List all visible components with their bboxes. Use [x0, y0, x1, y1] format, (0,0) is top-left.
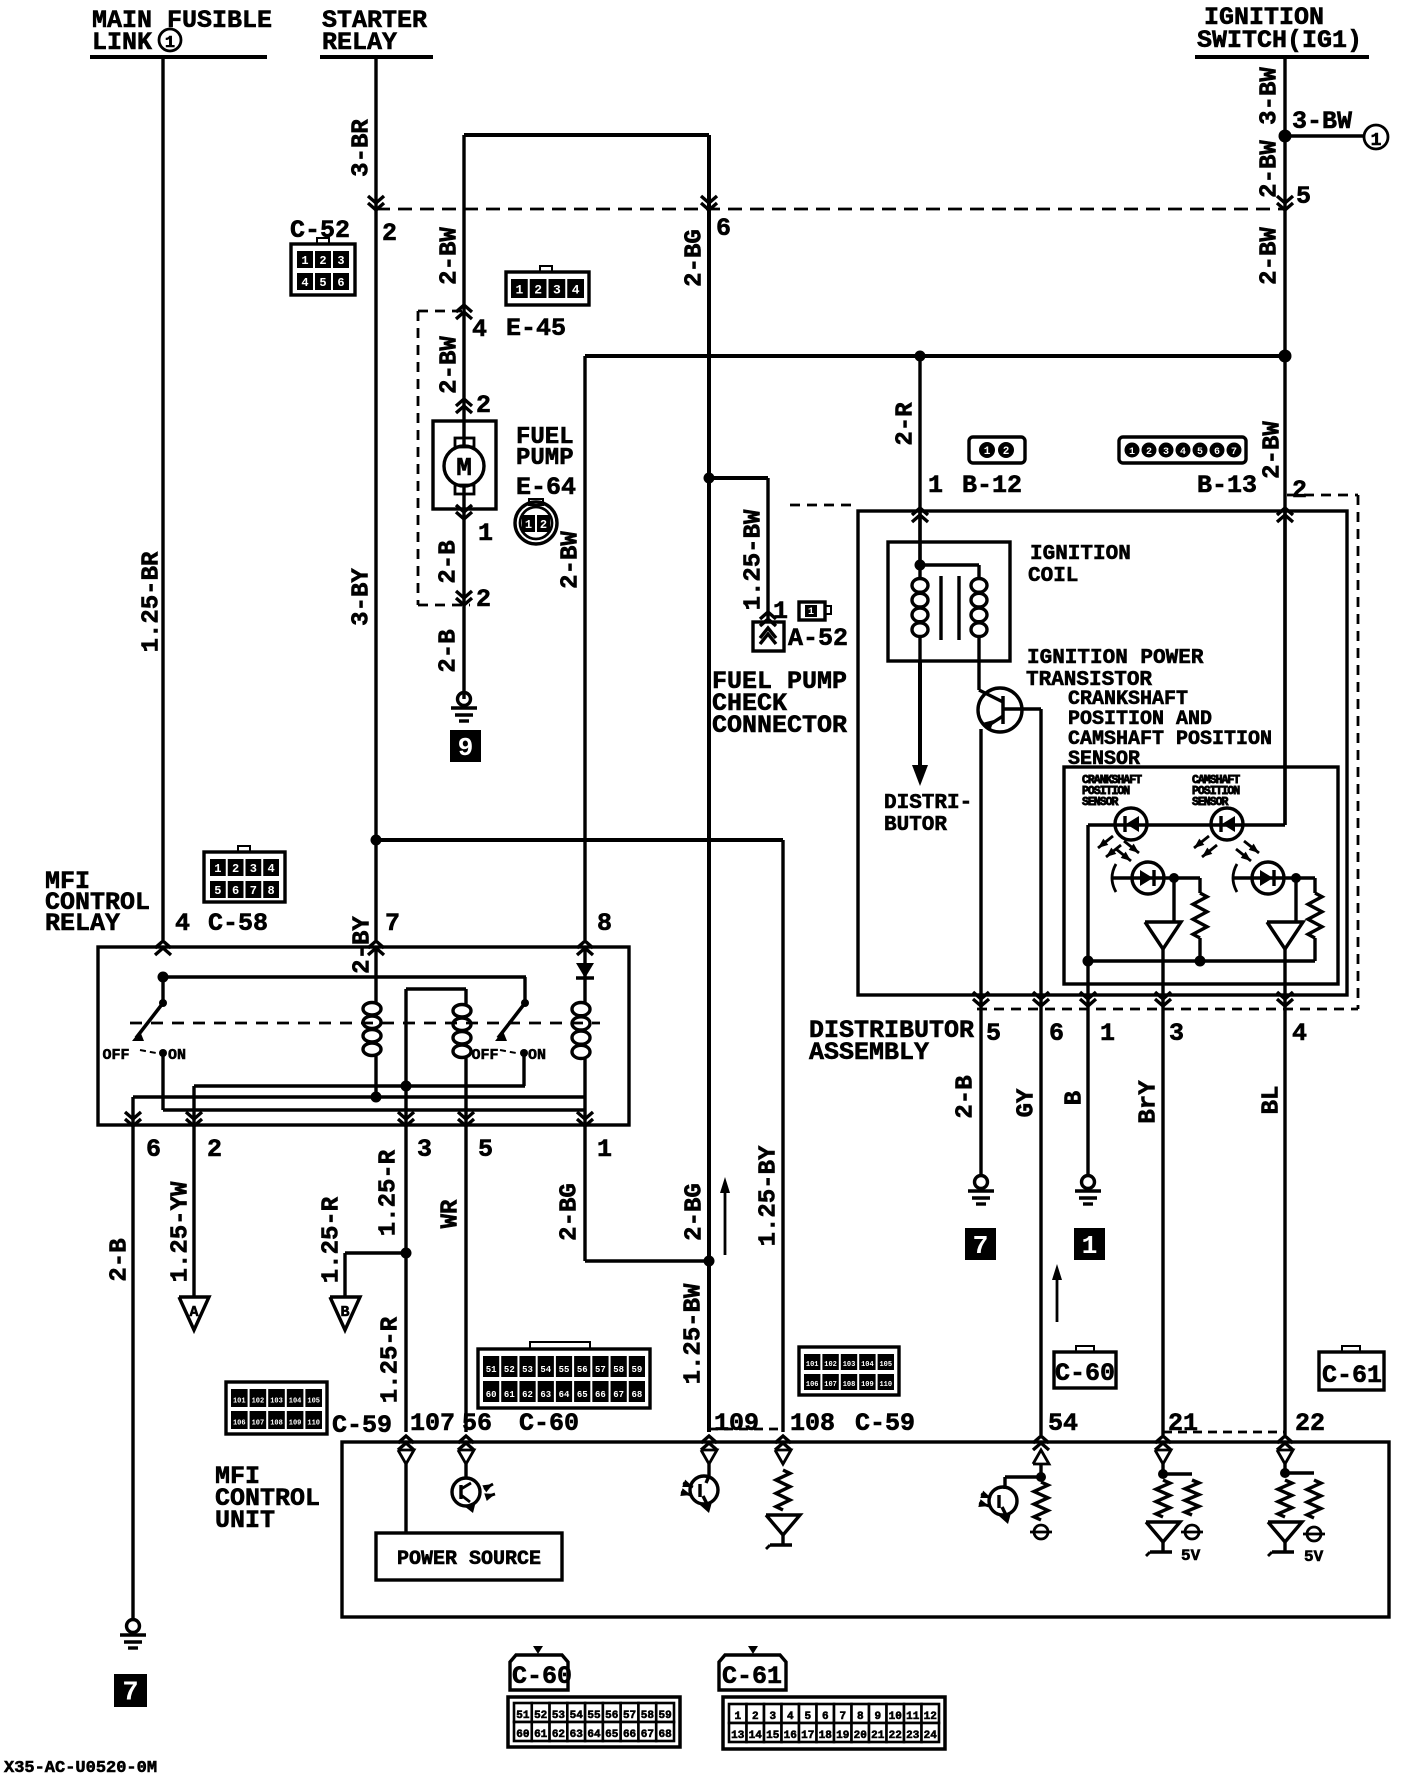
svg-text:1: 1	[165, 34, 175, 53]
svg-text:52: 52	[504, 1365, 515, 1375]
svg-text:M: M	[456, 453, 472, 483]
svg-text:67: 67	[613, 1390, 624, 1400]
svg-text:63: 63	[540, 1390, 551, 1400]
svg-text:C-59: C-59	[855, 1409, 915, 1438]
svg-text:62: 62	[552, 1729, 565, 1741]
svg-text:22: 22	[889, 1730, 902, 1742]
svg-text:A: A	[189, 1304, 198, 1321]
svg-text:16: 16	[784, 1730, 797, 1742]
svg-text:2: 2	[382, 219, 397, 248]
svg-text:1.25-BW: 1.25-BW	[680, 1283, 707, 1384]
svg-text:E-45: E-45	[506, 314, 566, 343]
svg-text:7: 7	[385, 909, 400, 938]
svg-text:7: 7	[122, 1678, 138, 1709]
svg-text:58: 58	[613, 1365, 624, 1375]
svg-text:7: 7	[839, 1711, 846, 1723]
svg-text:56: 56	[462, 1409, 492, 1438]
svg-text:102: 102	[824, 1361, 837, 1369]
svg-text:11: 11	[906, 1711, 920, 1723]
svg-text:6: 6	[1049, 1019, 1064, 1048]
svg-text:C-60: C-60	[519, 1409, 579, 1438]
svg-text:57: 57	[595, 1365, 606, 1375]
svg-text:3: 3	[250, 862, 257, 876]
svg-text:106: 106	[806, 1381, 819, 1389]
svg-text:62: 62	[522, 1390, 533, 1400]
svg-text:2: 2	[752, 1711, 759, 1723]
svg-text:4: 4	[1180, 447, 1186, 458]
svg-text:B-12: B-12	[962, 471, 1022, 500]
svg-text:2-BG: 2-BG	[681, 1183, 708, 1241]
svg-text:UNIT: UNIT	[215, 1506, 275, 1535]
svg-text:9: 9	[874, 1711, 881, 1723]
svg-text:3-BR: 3-BR	[348, 119, 375, 177]
svg-text:56: 56	[577, 1365, 588, 1375]
svg-text:24: 24	[924, 1730, 938, 1742]
svg-text:2-B: 2-B	[952, 1075, 979, 1118]
svg-text:65: 65	[577, 1390, 588, 1400]
svg-text:107: 107	[824, 1381, 837, 1389]
svg-text:3-BW: 3-BW	[1292, 107, 1352, 136]
svg-text:101: 101	[233, 1398, 246, 1406]
svg-text:1: 1	[478, 519, 493, 548]
svg-text:104: 104	[861, 1361, 874, 1369]
svg-text:4: 4	[301, 276, 308, 290]
svg-text:53: 53	[552, 1710, 566, 1722]
svg-text:4: 4	[175, 909, 190, 938]
svg-text:68: 68	[631, 1390, 642, 1400]
svg-text:IGNITION: IGNITION	[1030, 543, 1131, 566]
svg-text:68: 68	[659, 1729, 673, 1741]
svg-text:3: 3	[769, 1711, 776, 1723]
svg-text:5: 5	[986, 1019, 1001, 1048]
svg-text:5: 5	[319, 276, 326, 290]
svg-text:65: 65	[605, 1729, 619, 1741]
svg-text:59: 59	[631, 1365, 642, 1375]
svg-text:2-BG: 2-BG	[681, 229, 708, 287]
svg-text:5: 5	[478, 1135, 493, 1164]
svg-text:23: 23	[906, 1730, 920, 1742]
svg-text:14: 14	[749, 1730, 763, 1742]
svg-text:61: 61	[534, 1729, 548, 1741]
svg-text:C-60: C-60	[512, 1662, 572, 1691]
svg-text:IGNITION POWER: IGNITION POWER	[1027, 647, 1204, 670]
svg-text:ON: ON	[528, 1047, 546, 1064]
svg-text:1: 1	[808, 607, 814, 618]
svg-text:109: 109	[861, 1381, 874, 1389]
svg-text:C-61: C-61	[722, 1662, 782, 1691]
svg-text:5: 5	[214, 884, 221, 898]
svg-text:1: 1	[1129, 447, 1135, 458]
svg-text:RELAY: RELAY	[45, 909, 120, 938]
svg-text:5: 5	[1296, 182, 1311, 211]
svg-text:1.25-R: 1.25-R	[377, 1316, 404, 1403]
svg-text:C-59: C-59	[332, 1411, 392, 1440]
svg-text:1: 1	[1100, 1019, 1115, 1048]
svg-text:2-BW: 2-BW	[557, 531, 584, 589]
svg-text:SWITCH(IG1): SWITCH(IG1)	[1197, 26, 1362, 55]
svg-text:RELAY: RELAY	[322, 28, 397, 57]
svg-text:C-52: C-52	[290, 216, 350, 245]
svg-text:1: 1	[515, 282, 523, 297]
svg-text:105: 105	[307, 1398, 320, 1406]
svg-text:60: 60	[486, 1390, 497, 1400]
svg-text:8: 8	[857, 1711, 864, 1723]
svg-text:C-60: C-60	[1055, 1359, 1115, 1388]
svg-text:6: 6	[146, 1135, 161, 1164]
svg-text:61: 61	[504, 1390, 515, 1400]
svg-text:66: 66	[623, 1729, 636, 1741]
svg-text:2: 2	[207, 1135, 222, 1164]
svg-text:12: 12	[924, 1711, 937, 1723]
svg-text:B: B	[340, 1304, 349, 1321]
svg-text:109: 109	[714, 1409, 759, 1438]
svg-text:PUMP: PUMP	[516, 445, 574, 472]
svg-text:A-52: A-52	[788, 624, 848, 653]
svg-text:108: 108	[270, 1420, 283, 1428]
svg-text:3: 3	[1163, 447, 1169, 458]
svg-text:E-64: E-64	[516, 473, 576, 502]
svg-text:109: 109	[289, 1420, 302, 1428]
svg-text:2: 2	[1003, 446, 1010, 458]
svg-text:66: 66	[595, 1390, 606, 1400]
svg-text:1: 1	[525, 518, 532, 532]
svg-text:BL: BL	[1258, 1086, 1285, 1115]
svg-text:1.25-BW: 1.25-BW	[740, 509, 767, 610]
svg-text:54: 54	[570, 1710, 584, 1722]
svg-text:58: 58	[641, 1710, 655, 1722]
svg-text:52: 52	[534, 1710, 547, 1722]
svg-text:1.25-BR: 1.25-BR	[138, 551, 165, 652]
svg-text:1: 1	[984, 446, 991, 458]
svg-text:17: 17	[801, 1730, 814, 1742]
svg-text:OFF: OFF	[102, 1047, 129, 1064]
svg-text:20: 20	[854, 1730, 867, 1742]
svg-text:1.25-R: 1.25-R	[318, 1196, 345, 1283]
svg-text:2-BW: 2-BW	[436, 227, 463, 285]
svg-text:3-BW: 3-BW	[1256, 67, 1283, 125]
svg-text:2-BW: 2-BW	[1256, 227, 1283, 285]
svg-text:101: 101	[806, 1361, 819, 1369]
svg-text:2: 2	[232, 862, 239, 876]
svg-text:POWER SOURCE: POWER SOURCE	[397, 1548, 541, 1571]
svg-text:5V: 5V	[1304, 1548, 1324, 1566]
svg-text:C-58: C-58	[208, 909, 268, 938]
svg-text:15: 15	[766, 1730, 780, 1742]
svg-text:2-BW: 2-BW	[1259, 421, 1286, 479]
svg-text:1: 1	[597, 1135, 612, 1164]
svg-text:108: 108	[790, 1409, 835, 1438]
svg-text:8: 8	[597, 909, 612, 938]
svg-text:2-BW: 2-BW	[1256, 140, 1283, 198]
svg-text:2-B: 2-B	[435, 629, 462, 672]
svg-text:C-61: C-61	[1322, 1361, 1382, 1390]
svg-text:X35-AC-U0520-0M: X35-AC-U0520-0M	[4, 1759, 157, 1778]
svg-text:51: 51	[516, 1710, 530, 1722]
svg-text:1: 1	[1082, 1231, 1098, 1261]
svg-text:2: 2	[1292, 476, 1307, 505]
svg-text:6: 6	[232, 884, 239, 898]
svg-text:67: 67	[641, 1729, 654, 1741]
svg-text:5: 5	[1197, 447, 1203, 458]
svg-text:1: 1	[928, 471, 943, 500]
svg-text:60: 60	[516, 1729, 529, 1741]
svg-text:DISTRI-: DISTRI-	[884, 792, 972, 815]
svg-text:7: 7	[1231, 447, 1237, 458]
svg-text:2-B: 2-B	[106, 1238, 133, 1281]
svg-text:105: 105	[879, 1361, 892, 1369]
svg-text:2: 2	[1146, 447, 1152, 458]
svg-text:54: 54	[1048, 1409, 1078, 1438]
svg-text:4: 4	[472, 315, 487, 344]
svg-text:1.25-BY: 1.25-BY	[755, 1145, 782, 1246]
svg-text:3: 3	[337, 254, 344, 268]
svg-text:53: 53	[522, 1365, 533, 1375]
svg-text:BrY: BrY	[1135, 1080, 1162, 1124]
svg-text:LINK: LINK	[92, 28, 152, 57]
svg-text:OFF: OFF	[471, 1047, 498, 1064]
svg-text:107: 107	[410, 1409, 455, 1438]
svg-text:22: 22	[1295, 1409, 1325, 1438]
svg-text:COIL: COIL	[1028, 565, 1078, 588]
svg-text:51: 51	[486, 1365, 497, 1375]
svg-text:3: 3	[1169, 1019, 1184, 1048]
svg-text:2-R: 2-R	[892, 402, 919, 446]
svg-text:1.25-YW: 1.25-YW	[167, 1181, 194, 1282]
svg-text:B-13: B-13	[1197, 471, 1257, 500]
svg-text:4: 4	[572, 282, 580, 297]
svg-text:2-BG: 2-BG	[556, 1183, 583, 1241]
svg-text:1: 1	[214, 862, 221, 876]
svg-text:3: 3	[417, 1135, 432, 1164]
svg-text:6: 6	[1214, 447, 1220, 458]
svg-text:4: 4	[268, 862, 275, 876]
svg-text:2-BW: 2-BW	[436, 336, 463, 394]
svg-text:18: 18	[819, 1730, 833, 1742]
svg-text:64: 64	[559, 1390, 570, 1400]
svg-text:63: 63	[570, 1729, 584, 1741]
svg-text:2: 2	[319, 254, 326, 268]
svg-text:21: 21	[871, 1730, 885, 1742]
svg-text:5V: 5V	[1181, 1547, 1201, 1565]
svg-text:3-BY: 3-BY	[348, 568, 375, 626]
svg-text:19: 19	[836, 1730, 849, 1742]
svg-text:108: 108	[843, 1381, 856, 1389]
svg-text:57: 57	[623, 1710, 636, 1722]
svg-text:55: 55	[587, 1710, 601, 1722]
svg-text:4: 4	[787, 1711, 794, 1723]
svg-text:10: 10	[889, 1711, 902, 1723]
svg-text:110: 110	[879, 1381, 892, 1389]
svg-text:1.25-R: 1.25-R	[375, 1149, 402, 1236]
svg-text:1: 1	[1371, 131, 1382, 151]
svg-text:CONNECTOR: CONNECTOR	[712, 711, 847, 740]
svg-text:ASSEMBLY: ASSEMBLY	[809, 1038, 929, 1067]
svg-text:B: B	[1061, 1091, 1088, 1105]
svg-text:GY: GY	[1013, 1088, 1040, 1117]
svg-text:110: 110	[307, 1420, 320, 1428]
svg-text:64: 64	[587, 1729, 601, 1741]
svg-text:6: 6	[716, 214, 731, 243]
svg-text:3: 3	[553, 282, 561, 297]
svg-text:56: 56	[605, 1710, 618, 1722]
svg-text:107: 107	[252, 1420, 265, 1428]
svg-text:55: 55	[559, 1365, 570, 1375]
svg-text:BUTOR: BUTOR	[884, 814, 947, 837]
svg-text:103: 103	[843, 1361, 856, 1369]
svg-text:8: 8	[268, 884, 275, 898]
svg-text:6: 6	[822, 1711, 829, 1723]
svg-text:1: 1	[301, 254, 308, 268]
svg-text:54: 54	[540, 1365, 551, 1375]
svg-text:9: 9	[458, 733, 474, 763]
svg-text:2-B: 2-B	[435, 540, 462, 583]
svg-text:ON: ON	[168, 1047, 186, 1064]
svg-text:6: 6	[337, 276, 344, 290]
svg-text:103: 103	[270, 1398, 283, 1406]
svg-text:7: 7	[973, 1231, 989, 1261]
svg-text:5: 5	[804, 1711, 811, 1723]
svg-text:2: 2	[540, 518, 547, 532]
svg-text:4: 4	[1292, 1019, 1307, 1048]
svg-text:21: 21	[1168, 1409, 1198, 1438]
svg-text:102: 102	[252, 1398, 265, 1406]
svg-text:2: 2	[476, 585, 491, 614]
svg-text:59: 59	[659, 1710, 672, 1722]
svg-text:106: 106	[233, 1420, 246, 1428]
svg-text:WR: WR	[437, 1199, 464, 1228]
svg-text:2: 2	[534, 282, 542, 297]
svg-text:104: 104	[289, 1398, 302, 1406]
svg-text:SENSOR: SENSOR	[1082, 796, 1119, 809]
svg-text:13: 13	[731, 1730, 745, 1742]
svg-text:1: 1	[734, 1711, 741, 1723]
svg-text:7: 7	[250, 884, 257, 898]
svg-text:2: 2	[476, 391, 491, 420]
